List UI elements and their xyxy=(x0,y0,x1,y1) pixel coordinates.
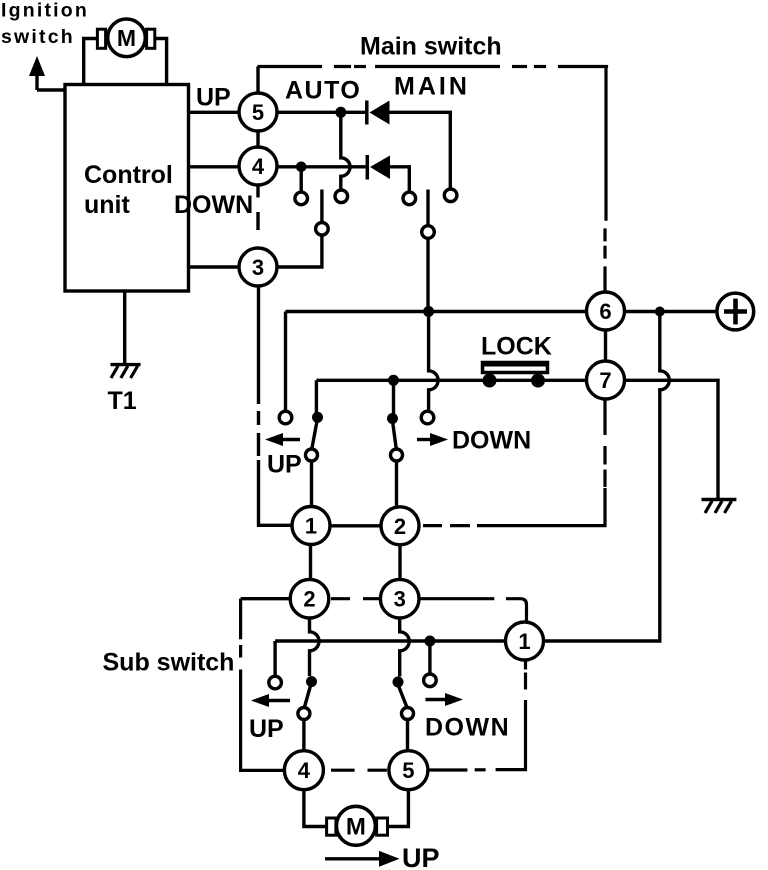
label: Ignition switch xyxy=(1,0,89,48)
svg-text:UP: UP xyxy=(196,84,231,112)
wire: control unit to ground T1 xyxy=(123,291,126,365)
contact: main DOWN left (closed) xyxy=(387,413,398,424)
svg-text:DOWN: DOWN xyxy=(452,427,531,455)
main switch left pole xyxy=(312,421,317,449)
ignition switch arrow xyxy=(35,73,38,90)
sub switch boundary: top left xyxy=(241,597,291,600)
terminal 1 (sub) xyxy=(506,622,544,660)
wire: terminal 5 to motor xyxy=(388,790,409,827)
wire: motor M1 left lead xyxy=(84,39,98,85)
arrow: main switch UP (left) xyxy=(282,438,300,441)
svg-text:AUTO: AUTO xyxy=(285,77,361,105)
wire: sub T2 down with hop over bus xyxy=(310,618,320,676)
wire: junction vertical with hop over T4 wire xyxy=(341,112,350,190)
svg-text:2: 2 xyxy=(394,514,406,539)
main switch dashed boundary: top edge xyxy=(258,67,607,69)
wire: terminal 6 to battery xyxy=(625,310,718,313)
contact: AUTO right (open) xyxy=(335,190,348,203)
MAIN switch pole xyxy=(426,190,429,226)
contact: main UP right (closed) xyxy=(312,412,323,423)
AUTO switch pole xyxy=(320,190,323,223)
AUTO pole pivot xyxy=(316,223,329,236)
wire: control unit to terminal 4 xyxy=(189,165,240,168)
main left pole pivot xyxy=(306,449,318,461)
wire: left pole to terminal 1 xyxy=(310,461,313,507)
svg-text:6: 6 xyxy=(599,299,611,324)
wire: terminal 1 to terminal 2 xyxy=(330,524,381,527)
terminal 4 (sub) xyxy=(284,751,323,790)
svg-text:4: 4 xyxy=(252,154,265,179)
battery positive terminal xyxy=(717,293,754,330)
svg-text:5: 5 xyxy=(252,100,264,125)
svg-text:1: 1 xyxy=(518,629,530,654)
junction: node B xyxy=(388,375,399,386)
wire: sub T3 down with hop over bus xyxy=(400,618,410,677)
sub right pole pivot xyxy=(402,708,414,720)
label: Control unit xyxy=(84,161,173,219)
terminal 6 xyxy=(587,292,625,330)
contact: main DOWN right (open) xyxy=(421,411,434,424)
wire: node A vertical with hop over lock bus xyxy=(429,312,439,412)
terminal 5 (sub) xyxy=(389,751,428,790)
wire: control unit to terminal 3 xyxy=(189,265,240,268)
terminal 3 (sub) xyxy=(380,579,419,618)
terminal 3 xyxy=(239,248,277,286)
wire: left pole to terminal 4 xyxy=(302,720,305,751)
sub left pole pivot xyxy=(298,708,310,720)
wire: MAIN pole to node A xyxy=(426,238,429,311)
wire: right pole to terminal 2 xyxy=(395,461,398,507)
ground (right) xyxy=(702,500,737,514)
svg-text:UP: UP xyxy=(249,715,284,743)
sub switch boundary: right edge below terminal 1 (dashed) xyxy=(429,662,525,771)
wire: stub to AUTO left contact xyxy=(300,167,303,192)
contact: main UP left (open) xyxy=(279,411,292,424)
wire: node A bus to terminal 6 xyxy=(286,310,587,313)
wire: ignition arrow to control unit xyxy=(37,88,65,91)
arrow: sub switch UP (left) xyxy=(268,699,290,702)
svg-text:1: 1 xyxy=(305,514,317,539)
contact: AUTO left (open) xyxy=(295,192,308,205)
svg-text:Sub switch: Sub switch xyxy=(103,649,235,677)
wire: sub bus left end to contact xyxy=(273,641,276,676)
motor M1 (top actuator) xyxy=(97,19,154,57)
sub switch boundary: top edge dashes between T2 and T3 xyxy=(331,597,380,600)
lock contact left (closed) xyxy=(483,374,497,388)
svg-text:7: 7 xyxy=(599,368,611,393)
motor M2 (window motor) xyxy=(327,806,388,845)
sub switch boundary: top right to terminal 1 xyxy=(419,599,527,622)
contact: sub DOWN left (closed) xyxy=(393,677,404,688)
wire: terminal 7 to ground (with hop over battery feed) xyxy=(625,380,719,499)
wire: lock bus left end down to contact xyxy=(315,380,318,415)
terminal 2 (sub) xyxy=(290,579,329,618)
svg-text:3: 3 xyxy=(394,587,406,612)
wire: terminal 7 to main terminal 2 (dashed boundary) xyxy=(423,399,605,526)
contact: sub DOWN right (open) xyxy=(424,674,437,687)
svg-text:switch: switch xyxy=(1,26,75,48)
lock switch bar xyxy=(483,363,548,373)
ground T1 xyxy=(111,365,141,378)
arrow: sub switch DOWN (right) xyxy=(426,698,447,701)
wire: main T2 to sub T3 xyxy=(398,545,401,580)
wire: terminal 4 to motor xyxy=(304,790,327,827)
diode D2 xyxy=(370,156,390,180)
junction: node on T5 wire xyxy=(335,107,346,118)
contact: MAIN upper right (open) xyxy=(444,189,457,202)
svg-text:unit: unit xyxy=(84,191,130,219)
junction: battery node xyxy=(655,307,665,317)
svg-text:5: 5 xyxy=(402,758,414,783)
svg-text:M: M xyxy=(117,25,136,51)
wire: node A down to left UP contact xyxy=(284,312,287,412)
MAIN pole pivot xyxy=(422,226,435,239)
svg-text:MAIN: MAIN xyxy=(394,73,470,101)
svg-text:DOWN: DOWN xyxy=(174,191,253,219)
main switch dashed boundary: right edge xyxy=(605,67,606,293)
svg-text:Control: Control xyxy=(84,161,173,189)
sub switch boundary: left edge (dashed) xyxy=(241,599,285,771)
terminal 4 xyxy=(239,147,277,185)
wire: diode D1 to MAIN contact xyxy=(390,112,451,189)
wire: lock bus to terminal 7 xyxy=(316,379,586,382)
junction: node on T4 wire xyxy=(296,162,307,173)
wire: main T1 to sub T2 xyxy=(309,545,312,580)
main switch right pole xyxy=(393,421,397,449)
terminal 7 xyxy=(587,361,625,399)
arrow: motor UP direction xyxy=(325,857,381,860)
svg-text:T1: T1 xyxy=(108,387,137,415)
svg-text:DOWN: DOWN xyxy=(425,714,510,742)
main right pole pivot xyxy=(391,449,403,461)
wire: terminal 4 to terminal 3 (dashed) xyxy=(256,185,259,198)
svg-text:M: M xyxy=(346,814,366,841)
svg-text:LOCK: LOCK xyxy=(481,333,552,361)
diode D1 xyxy=(370,101,390,125)
control unit U1 box xyxy=(65,85,189,292)
sub switch right pole xyxy=(398,685,407,709)
wire: dashed between terminal 4 and 5 xyxy=(331,769,387,772)
wire: terminal 5 stub to boundary xyxy=(256,67,259,94)
wire: right pole to terminal 5 xyxy=(406,720,409,751)
wire: sub bus node to contact xyxy=(428,641,431,674)
wire: control unit to terminal 5 xyxy=(189,111,240,114)
wire: AUTO pole to terminal 3 xyxy=(277,235,322,267)
wire: motor M1 right lead xyxy=(155,39,167,85)
svg-text:2: 2 xyxy=(303,587,315,612)
wire: node B down to contact xyxy=(392,380,395,415)
wire: battery node vertical with hop, down to sub switch terminal 1 xyxy=(544,312,670,642)
main switch boundary left edge below terminal 3 xyxy=(257,286,260,404)
junction: node A xyxy=(423,306,434,317)
wire: terminal 5 to terminal 4 xyxy=(256,131,259,147)
wire: terminal 5 to diode D1 xyxy=(277,111,365,114)
arrow: main switch DOWN (right) xyxy=(417,438,431,441)
terminal 2 (main) xyxy=(381,507,419,545)
wire: terminal 6 to terminal 7 xyxy=(604,330,607,361)
lock contact right (closed) xyxy=(531,374,545,388)
diode D2 cathode bar xyxy=(366,155,370,180)
wire: terminal 4 to diode D2 xyxy=(277,165,366,168)
svg-text:UP: UP xyxy=(402,843,440,870)
svg-text:3: 3 xyxy=(252,255,264,280)
wire: diode D2 to MAIN left contact xyxy=(390,167,409,192)
svg-text:Ignition: Ignition xyxy=(1,0,89,22)
junction: sub bus node xyxy=(424,636,435,647)
svg-text:Main switch: Main switch xyxy=(360,33,502,61)
svg-text:UP: UP xyxy=(267,451,302,479)
contact: sub UP left (open) xyxy=(269,676,282,689)
contact: sub UP right (closed) xyxy=(306,676,317,687)
terminal 5 xyxy=(239,93,277,131)
svg-text:4: 4 xyxy=(298,758,311,783)
contact: MAIN left (open) xyxy=(403,192,416,205)
sub switch left pole xyxy=(304,684,311,708)
wire: sub bus xyxy=(275,639,505,642)
terminal 1 (main) xyxy=(292,507,330,545)
diode D1 cathode bar xyxy=(365,101,369,125)
